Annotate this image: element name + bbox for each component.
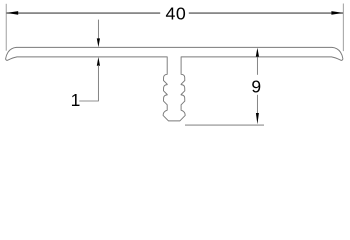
svg-text:1: 1 xyxy=(71,90,81,110)
svg-text:9: 9 xyxy=(251,76,261,96)
svg-text:40: 40 xyxy=(166,4,187,24)
